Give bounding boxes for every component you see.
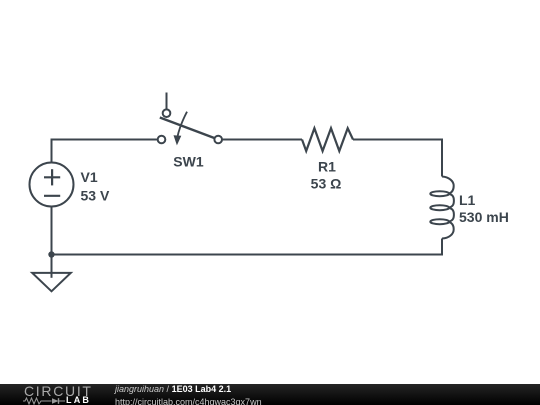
voltage source V1 (30, 163, 74, 207)
inductor L1 (430, 177, 454, 239)
wire: switch top stub (166, 93, 168, 110)
CircuitLab logo (24, 387, 93, 396)
wire: inductor bottom to bottom rail to junction (52, 239, 443, 255)
switch SW1 arrowhead (174, 135, 182, 145)
switch SW1 (158, 109, 222, 143)
svg-text:530 mH: 530 mH (459, 209, 509, 225)
svg-text:L1: L1 (459, 192, 476, 208)
svg-text:R1: R1 (318, 158, 336, 174)
resistor R1 (302, 128, 353, 151)
footer title (115, 385, 231, 394)
wire: V1 top to top rail (52, 140, 158, 163)
wire: V1 bottom to junction (51, 207, 53, 255)
svg-text:SW1: SW1 (173, 153, 204, 169)
footer url (115, 398, 262, 405)
svg-text:53 V: 53 V (81, 188, 110, 204)
label L1 value 530 mH (459, 192, 509, 225)
ground (32, 255, 71, 292)
label R1 value 53 ohm (311, 158, 342, 191)
label V1 value 53 V (81, 169, 110, 203)
wire: switch right terminal to resistor (222, 139, 302, 141)
svg-text:53 Ω: 53 Ω (311, 176, 342, 192)
svg-text:V1: V1 (81, 169, 98, 185)
node junction at V1 bottom (48, 251, 54, 257)
wire: resistor to top-right corner down to inductor (353, 140, 442, 177)
